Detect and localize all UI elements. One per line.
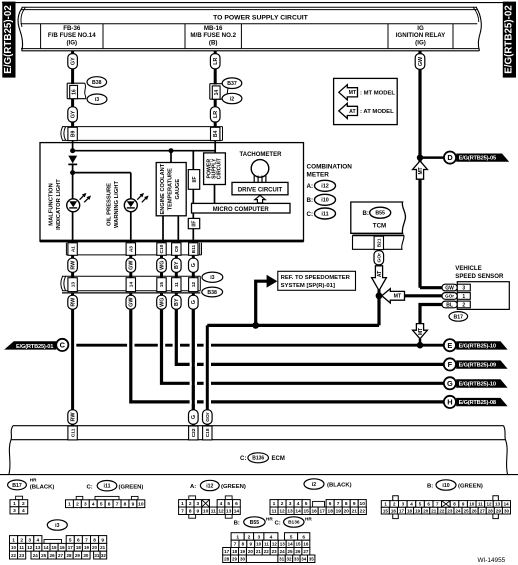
svg-text:F: F bbox=[448, 360, 453, 369]
svg-text:SYSTEM [SP(R)-01]: SYSTEM [SP(R)-01] bbox=[281, 283, 335, 289]
svg-text:1: 1 bbox=[12, 537, 15, 543]
svg-text:12: 12 bbox=[272, 542, 278, 547]
bus torn left edge bbox=[18, 7, 22, 51]
wire bbox=[214, 99, 217, 107]
svg-text:C:: C: bbox=[307, 211, 314, 218]
svg-text:4: 4 bbox=[22, 508, 25, 514]
svg-text:E/G(RTB25)-10: E/G(RTB25)-10 bbox=[459, 381, 496, 387]
svg-text:14: 14 bbox=[504, 502, 510, 507]
I/F box upper bbox=[188, 170, 199, 190]
pin B11 bbox=[189, 243, 198, 256]
svg-text:G: G bbox=[447, 379, 453, 388]
svg-text:E/G(RTB25)-05: E/G(RTB25)-05 bbox=[459, 156, 496, 162]
svg-text:B:: B: bbox=[363, 211, 369, 217]
svg-text:21: 21 bbox=[352, 509, 358, 515]
svg-text:16: 16 bbox=[311, 509, 317, 515]
svg-text:GAUGE: GAUGE bbox=[175, 179, 181, 200]
svg-text:2: 2 bbox=[76, 501, 79, 507]
svg-text:AT: AT bbox=[377, 271, 383, 277]
svg-text:10: 10 bbox=[256, 542, 262, 547]
junction bbox=[70, 170, 75, 175]
in-line connector (fuse block) pin 16 bbox=[66, 83, 68, 99]
svg-text:5: 5 bbox=[100, 501, 103, 507]
pennant E/G(RTB25)-10 bbox=[456, 379, 507, 387]
svg-text:C10: C10 bbox=[159, 244, 165, 253]
svg-text:16: 16 bbox=[60, 545, 66, 550]
pin C22 bbox=[189, 426, 198, 440]
svg-text:20: 20 bbox=[423, 508, 429, 513]
svg-text:35: 35 bbox=[309, 556, 315, 561]
svg-text:20: 20 bbox=[92, 545, 98, 550]
wire I/F to micro computer bbox=[192, 189, 194, 203]
svg-text:MALFUNCTION: MALFUNCTION bbox=[49, 183, 55, 226]
svg-text:B21: B21 bbox=[377, 238, 383, 247]
svg-text:19: 19 bbox=[415, 508, 421, 513]
node D junction bbox=[417, 154, 423, 160]
svg-text:GW: GW bbox=[129, 260, 135, 270]
legend box bbox=[334, 78, 398, 124]
svg-text:13: 13 bbox=[495, 502, 501, 507]
svg-text:10: 10 bbox=[360, 501, 366, 507]
svg-text:GOr: GOr bbox=[445, 294, 454, 299]
svg-text:IG: IG bbox=[417, 25, 424, 32]
I/F box lower bbox=[188, 218, 199, 228]
svg-text:E/G(RTB25)-09: E/G(RTB25)-09 bbox=[459, 363, 496, 369]
svg-text:17: 17 bbox=[399, 508, 405, 513]
svg-text:29: 29 bbox=[75, 553, 81, 558]
svg-text:7: 7 bbox=[116, 501, 119, 507]
in-line connector pin 14 bbox=[209, 84, 211, 100]
svg-text:13: 13 bbox=[70, 282, 76, 288]
svg-text:18: 18 bbox=[232, 549, 238, 554]
svg-text:C:: C: bbox=[240, 456, 246, 462]
svg-text:5: 5 bbox=[227, 501, 230, 507]
MT model arrow (down) bbox=[413, 324, 428, 339]
pin C9 bbox=[172, 243, 181, 256]
svg-text:B11: B11 bbox=[191, 245, 197, 254]
svg-text:2: 2 bbox=[462, 302, 465, 308]
wire bbox=[71, 69, 74, 84]
svg-text:B38: B38 bbox=[92, 80, 102, 86]
power supply circuit box bbox=[204, 153, 226, 185]
svg-text:23: 23 bbox=[447, 508, 453, 513]
svg-text:20: 20 bbox=[344, 509, 350, 515]
wire RW label bbox=[71, 293, 74, 296]
svg-text:B55: B55 bbox=[250, 520, 260, 526]
pennant E/G(RTB25)-10 bbox=[456, 341, 507, 349]
svg-text:3: 3 bbox=[197, 501, 200, 507]
node E line (C to E) bbox=[67, 344, 70, 347]
harness connector strip bbox=[62, 126, 223, 128]
svg-text:B37: B37 bbox=[227, 81, 237, 87]
svg-text:11: 11 bbox=[211, 509, 216, 515]
svg-text:(IG): (IG) bbox=[66, 39, 77, 46]
wire label LR bbox=[210, 107, 220, 122]
svg-text:4: 4 bbox=[92, 501, 95, 507]
meter internal supply wire bbox=[73, 150, 216, 152]
wire WG to node G bbox=[162, 309, 444, 383]
svg-text:11: 11 bbox=[174, 282, 180, 287]
svg-text:BL: BL bbox=[446, 302, 453, 308]
wire GW to speed sensor bbox=[420, 286, 443, 289]
connector view i3 bbox=[47, 520, 67, 530]
meter connector strip bbox=[66, 254, 201, 256]
pennant E/G(RTB25)-05 bbox=[456, 154, 509, 162]
svg-text:21: 21 bbox=[256, 549, 262, 554]
svg-text:: MT MODEL: : MT MODEL bbox=[360, 90, 395, 96]
svg-text:28: 28 bbox=[488, 508, 494, 513]
svg-text:HR: HR bbox=[30, 477, 37, 482]
svg-text:10: 10 bbox=[469, 502, 475, 507]
svg-text:SPEED SENSOR: SPEED SENSOR bbox=[455, 273, 504, 280]
wire label GY bbox=[68, 54, 78, 69]
svg-text:A:: A: bbox=[190, 484, 196, 490]
svg-text:INDICATOR LIGHT: INDICATOR LIGHT bbox=[56, 179, 62, 230]
svg-text:10: 10 bbox=[203, 509, 209, 515]
svg-text:i3: i3 bbox=[95, 97, 99, 103]
svg-text:12: 12 bbox=[218, 509, 224, 515]
svg-text:i10: i10 bbox=[321, 198, 329, 204]
fuse box dividers bbox=[40, 24, 42, 49]
svg-text:28: 28 bbox=[224, 556, 230, 561]
svg-text:6: 6 bbox=[235, 501, 238, 507]
svg-text:13: 13 bbox=[280, 542, 286, 547]
svg-text:19: 19 bbox=[336, 509, 342, 515]
svg-text:METER: METER bbox=[307, 172, 330, 179]
svg-text:4: 4 bbox=[37, 537, 40, 543]
legend MT arrow bbox=[339, 85, 358, 100]
svg-text:15: 15 bbox=[52, 545, 58, 550]
svg-text:(GREEN): (GREEN) bbox=[119, 484, 144, 490]
bus torn right edge bbox=[476, 7, 481, 51]
svg-text:1: 1 bbox=[273, 501, 276, 507]
svg-text:2: 2 bbox=[22, 501, 25, 507]
svg-text:B38: B38 bbox=[207, 290, 217, 296]
svg-text:15: 15 bbox=[303, 509, 309, 515]
svg-text:6: 6 bbox=[108, 501, 111, 507]
wire bbox=[72, 163, 74, 199]
svg-text:30: 30 bbox=[504, 508, 510, 513]
oil pressure warning light LED bbox=[124, 199, 137, 212]
svg-text:B:: B: bbox=[234, 520, 240, 526]
pin B21 bbox=[374, 236, 383, 249]
svg-text:7: 7 bbox=[85, 537, 88, 543]
svg-text:17: 17 bbox=[320, 509, 326, 515]
svg-text:ECM: ECM bbox=[272, 456, 285, 462]
svg-text:OIL PRESSURE: OIL PRESSURE bbox=[107, 183, 113, 226]
svg-text:3: 3 bbox=[289, 501, 292, 507]
svg-text:GW: GW bbox=[445, 285, 454, 291]
svg-text:26: 26 bbox=[295, 549, 301, 554]
node C bbox=[56, 339, 68, 351]
pin 11 bbox=[172, 278, 181, 292]
svg-text:B17: B17 bbox=[454, 314, 464, 320]
svg-text:MB-16: MB-16 bbox=[204, 25, 223, 32]
svg-text:6: 6 bbox=[302, 535, 305, 541]
svg-text:TEMPERATURE: TEMPERATURE bbox=[168, 168, 174, 210]
wire to D bbox=[420, 156, 444, 159]
wire LR from MB-16 fuse bbox=[214, 51, 217, 55]
wire bbox=[71, 99, 74, 108]
pin 12 bbox=[189, 278, 198, 292]
svg-text:25: 25 bbox=[41, 553, 47, 558]
svg-text:B:: B: bbox=[307, 197, 314, 204]
svg-text:26: 26 bbox=[472, 508, 478, 513]
svg-text:25: 25 bbox=[464, 508, 470, 513]
ref to speedometer box bbox=[278, 271, 356, 290]
svg-text:4: 4 bbox=[270, 535, 273, 541]
TCM connector strip bbox=[353, 234, 405, 236]
svg-text:28: 28 bbox=[66, 553, 72, 558]
svg-text:i2: i2 bbox=[312, 482, 316, 488]
svg-text:12: 12 bbox=[279, 509, 285, 515]
svg-text:3: 3 bbox=[84, 501, 87, 507]
svg-text:4: 4 bbox=[220, 501, 223, 507]
wire GW label bbox=[129, 293, 132, 296]
wire WG label bbox=[160, 293, 163, 296]
wire G label bbox=[192, 255, 195, 258]
svg-text:i11: i11 bbox=[321, 211, 328, 217]
svg-text:C11: C11 bbox=[70, 428, 76, 437]
svg-text:i3: i3 bbox=[55, 523, 59, 529]
svg-text:: AT MODEL: : AT MODEL bbox=[360, 109, 394, 115]
svg-text:LR: LR bbox=[213, 58, 219, 65]
svg-text:18: 18 bbox=[407, 508, 413, 513]
svg-text:HR: HR bbox=[305, 517, 312, 522]
engine coolant temperature gauge box bbox=[156, 163, 186, 216]
pennant E/G(RTB25)-09 bbox=[456, 360, 507, 368]
svg-text:WI-14955: WI-14955 bbox=[478, 557, 506, 564]
svg-text:17: 17 bbox=[68, 545, 74, 550]
pin 14 bbox=[126, 278, 135, 292]
legend AT arrow bbox=[339, 103, 358, 118]
svg-text:10: 10 bbox=[138, 501, 144, 507]
svg-text:B55: B55 bbox=[375, 211, 385, 217]
svg-text:1: 1 bbox=[462, 294, 465, 300]
svg-text:30: 30 bbox=[240, 556, 246, 561]
wire stub bbox=[419, 339, 422, 345]
wire bbox=[214, 122, 217, 127]
MT model arrow (left) bbox=[404, 294, 443, 297]
combination meter box bbox=[40, 143, 304, 242]
svg-text:1: 1 bbox=[13, 501, 16, 507]
svg-text:26: 26 bbox=[50, 553, 56, 558]
svg-text:11: 11 bbox=[478, 502, 483, 507]
svg-text:i12: i12 bbox=[321, 184, 329, 190]
svg-text:E: E bbox=[447, 341, 452, 350]
svg-text:M/B FUSE NO.2: M/B FUSE NO.2 bbox=[190, 32, 236, 39]
svg-text:B4: B4 bbox=[213, 130, 219, 137]
svg-text:21: 21 bbox=[100, 545, 106, 550]
svg-text:16: 16 bbox=[303, 542, 309, 547]
svg-text:AT: AT bbox=[349, 109, 356, 115]
svg-text:7: 7 bbox=[181, 509, 184, 515]
svg-text:G: G bbox=[191, 263, 197, 267]
svg-text:VEHICLE: VEHICLE bbox=[455, 265, 481, 272]
svg-text:5: 5 bbox=[69, 537, 72, 543]
svg-text:B136: B136 bbox=[288, 520, 300, 526]
MT model arrow (up) bbox=[413, 161, 428, 179]
svg-text:13: 13 bbox=[226, 509, 232, 515]
svg-text:29: 29 bbox=[232, 556, 238, 561]
wire bbox=[71, 122, 74, 127]
svg-text:C9: C9 bbox=[174, 246, 180, 252]
pin A3 bbox=[126, 243, 135, 256]
pin 15 bbox=[157, 278, 166, 292]
speedometer signal wire bbox=[207, 324, 379, 327]
node F bbox=[444, 358, 456, 370]
AT model arrow (down) bbox=[372, 266, 387, 291]
svg-text:16: 16 bbox=[71, 89, 77, 95]
wire bbox=[378, 265, 381, 296]
svg-text:E/G(RTB25)-01: E/G(RTB25)-01 bbox=[16, 344, 53, 350]
svg-text:FB-36: FB-36 bbox=[63, 25, 81, 32]
svg-text:21: 21 bbox=[431, 508, 437, 513]
svg-text:GOr: GOr bbox=[205, 412, 211, 422]
svg-text:B9: B9 bbox=[70, 130, 76, 137]
junction bbox=[70, 148, 75, 153]
wire label GW / pin 3 bbox=[442, 284, 457, 291]
svg-text:E/G(RTB25)-08: E/G(RTB25)-08 bbox=[459, 400, 496, 406]
pin C11 bbox=[68, 426, 77, 440]
svg-text:24: 24 bbox=[280, 549, 286, 554]
svg-text:32: 32 bbox=[286, 556, 292, 561]
svg-text:DRIVE CIRCUIT: DRIVE CIRCUIT bbox=[238, 187, 283, 193]
svg-text:19: 19 bbox=[240, 549, 246, 554]
pin C18 bbox=[203, 426, 212, 440]
wire bbox=[214, 69, 217, 85]
malfunction indicator light LED bbox=[67, 199, 80, 212]
wire RW to ECM bbox=[71, 309, 74, 410]
svg-text:8: 8 bbox=[93, 537, 96, 543]
diode bbox=[68, 156, 77, 164]
wire label BL / pin 2 bbox=[442, 301, 457, 308]
connector view B17 bbox=[8, 480, 27, 490]
svg-text:15: 15 bbox=[159, 282, 165, 288]
micro computer box bbox=[192, 203, 291, 213]
junction MT/AT bbox=[376, 292, 383, 299]
svg-text:9: 9 bbox=[101, 537, 104, 543]
svg-text:(BLACK): (BLACK) bbox=[327, 483, 352, 489]
svg-text:C: C bbox=[60, 341, 66, 350]
svg-text:C18: C18 bbox=[205, 428, 211, 437]
svg-text:33: 33 bbox=[294, 556, 300, 561]
svg-text:WG: WG bbox=[159, 298, 165, 307]
svg-text:14: 14 bbox=[288, 542, 294, 547]
svg-text:B:: B: bbox=[427, 484, 433, 490]
svg-text:27: 27 bbox=[480, 508, 486, 513]
svg-text:14: 14 bbox=[129, 282, 135, 288]
svg-text:3: 3 bbox=[257, 535, 260, 541]
connector B17 bbox=[449, 312, 468, 322]
connector B38 bbox=[202, 287, 223, 297]
svg-text:E/G(RTB25)-02: E/G(RTB25)-02 bbox=[3, 5, 14, 74]
svg-text:22: 22 bbox=[264, 549, 270, 554]
VSS connector body bbox=[457, 282, 509, 310]
svg-text:COMBINATION: COMBINATION bbox=[307, 164, 353, 171]
connector i2 bbox=[222, 93, 242, 103]
page top border line bbox=[2, 2, 516, 4]
svg-text:BY: BY bbox=[174, 298, 180, 306]
svg-text:6: 6 bbox=[77, 537, 80, 543]
wire GOr label bbox=[203, 410, 213, 424]
svg-text:TO POWER SUPPLY CIRCUIT: TO POWER SUPPLY CIRCUIT bbox=[213, 15, 309, 22]
svg-text:i2: i2 bbox=[230, 96, 234, 102]
svg-text:GOr: GOr bbox=[377, 253, 383, 263]
svg-text:24: 24 bbox=[33, 553, 39, 558]
svg-text:I/F: I/F bbox=[192, 176, 198, 182]
svg-text:9: 9 bbox=[353, 501, 356, 507]
svg-text:E/G(RTB25)-10: E/G(RTB25)-10 bbox=[459, 343, 496, 349]
svg-text:i11: i11 bbox=[104, 484, 111, 490]
svg-text:9: 9 bbox=[197, 509, 200, 515]
svg-text:31: 31 bbox=[94, 553, 100, 558]
wire WG label bbox=[160, 255, 163, 258]
svg-text:MT: MT bbox=[394, 294, 402, 300]
svg-text:5: 5 bbox=[290, 535, 293, 541]
svg-text:1: 1 bbox=[68, 501, 71, 507]
svg-text:C:: C: bbox=[275, 520, 281, 526]
svg-text:(GREEN): (GREEN) bbox=[458, 484, 483, 490]
wire RW label bbox=[71, 255, 74, 258]
svg-text:C22: C22 bbox=[191, 428, 197, 437]
wire label LR bbox=[210, 54, 220, 69]
connector i3 bbox=[202, 272, 223, 282]
wire stubs into meter bbox=[72, 141, 74, 151]
junction speedometer branch bbox=[252, 322, 259, 329]
svg-text:4: 4 bbox=[297, 501, 300, 507]
svg-text:A1: A1 bbox=[70, 246, 76, 252]
connector view i2 bbox=[304, 479, 324, 489]
node G bbox=[444, 377, 456, 389]
svg-text:32: 32 bbox=[101, 553, 107, 558]
svg-text:22: 22 bbox=[439, 508, 445, 513]
svg-text:RW: RW bbox=[71, 297, 77, 307]
svg-text:2: 2 bbox=[189, 501, 192, 507]
svg-text:13: 13 bbox=[35, 545, 41, 550]
svg-text:1: 1 bbox=[181, 501, 184, 507]
svg-text:TCM: TCM bbox=[373, 223, 386, 230]
wire label GOr bbox=[377, 250, 380, 251]
wire BY label bbox=[175, 293, 178, 296]
node H bbox=[444, 396, 456, 408]
svg-text:23: 23 bbox=[19, 553, 25, 558]
svg-text:TACHOMETER: TACHOMETER bbox=[240, 152, 283, 158]
wire GW down to D junction bbox=[418, 69, 421, 287]
svg-text:3: 3 bbox=[28, 537, 31, 543]
LED output wires bbox=[72, 212, 74, 243]
wire micro to I/F lower bbox=[192, 213, 194, 218]
svg-text:i3: i3 bbox=[210, 275, 214, 281]
svg-text:E/G(RTB25)-02: E/G(RTB25)-02 bbox=[503, 5, 514, 74]
svg-text:25: 25 bbox=[288, 549, 294, 554]
svg-text:A3: A3 bbox=[129, 246, 135, 252]
wire label GW bbox=[415, 54, 425, 70]
svg-text:F/B FUSE NO.14: F/B FUSE NO.14 bbox=[48, 32, 96, 39]
svg-text:MT: MT bbox=[349, 90, 357, 96]
svg-text:B17: B17 bbox=[12, 483, 22, 489]
svg-text:WG: WG bbox=[159, 261, 165, 270]
svg-text:13: 13 bbox=[287, 509, 293, 515]
svg-text:MICRO COMPUTER: MICRO COMPUTER bbox=[213, 207, 270, 213]
node D bbox=[444, 152, 456, 164]
power supply bus band bbox=[22, 6, 478, 8]
pin 13 bbox=[68, 278, 77, 292]
svg-text:5: 5 bbox=[305, 501, 308, 507]
page label bar right E/G(RTB25)-02 bbox=[503, 2, 516, 78]
svg-text:8: 8 bbox=[124, 501, 127, 507]
svg-text:A:: A: bbox=[307, 183, 314, 190]
